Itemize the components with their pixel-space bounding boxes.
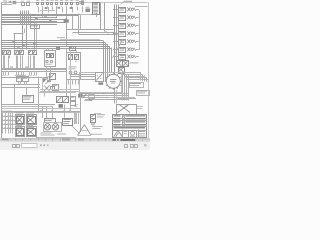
switch tick — [106, 76, 107, 79]
module U1 pin text — [93, 2, 98, 5]
ladder relay R2 box — [119, 16, 126, 21]
ladder rail 2 — [116, 5, 118, 61]
breaker L2 — [23, 77, 29, 82]
bus2 wire — [2, 40, 104, 42]
wire corner x80 — [80, 14, 82, 29]
ladder diagonal wire — [113, 39, 124, 58]
harness junction dots — [103, 93, 104, 94]
misc text — [94, 112, 101, 115]
ladder diag — [134, 48, 136, 51]
wires above inset — [108, 97, 135, 99]
terminal stubs below — [3, 71, 5, 75]
ladder stub left — [114, 33, 119, 35]
ladder contact X — [127, 7, 130, 11]
bus extra drops right pair — [34, 21, 36, 50]
ladder contact circle — [131, 48, 133, 50]
fuse box C2 — [63, 97, 69, 103]
wires below M1 — [46, 66, 48, 77]
ladder contact X — [127, 47, 130, 51]
dark component — [59, 104, 63, 108]
gauge label box — [45, 119, 56, 123]
switch contact box — [96, 73, 104, 82]
solenoid A4 — [27, 127, 37, 137]
fuse F5 — [55, 0, 58, 2]
connector labels x79 — [79, 0, 84, 3]
bus long drops — [22, 11, 24, 50]
page input box — [22, 144, 38, 148]
regulator box — [53, 85, 59, 91]
switch tick — [108, 74, 111, 75]
solenoid A1 — [16, 112, 24, 115]
terminal grid horizontals — [2, 116, 20, 118]
ladder relay R4 box — [119, 32, 126, 37]
wire into L3 — [26, 87, 28, 95]
wire top row link — [40, 10, 55, 12]
relay pin wire — [30, 56, 32, 59]
bus2 label text — [57, 36, 65, 39]
ladder contact X — [127, 15, 130, 19]
ladder stub left — [114, 25, 119, 27]
ladder contact X — [127, 31, 130, 35]
relay pin wire — [9, 56, 11, 59]
ladder contact circle — [131, 8, 133, 10]
step wire — [14, 33, 24, 35]
vertical wire x79 — [80, 92, 82, 132]
relay box M2 — [67, 53, 81, 80]
bottom wire — [36, 137, 76, 139]
long wire y77 — [2, 77, 41, 79]
wire vertical x100 — [100, 3, 102, 30]
bus2 wire — [2, 44, 108, 46]
ladder bottom cluster box2 — [123, 61, 129, 67]
right icon 2 — [131, 145, 134, 148]
relay pin wire — [3, 56, 5, 59]
ladder stub right — [136, 33, 139, 35]
bus2 bend drop — [103, 41, 105, 80]
page border left — [1, 2, 3, 140]
title bar text — [114, 127, 146, 128]
bus dots — [40, 110, 41, 111]
small box mid cluster — [51, 87, 55, 90]
ladder rail 1 — [114, 5, 116, 75]
wire x72 down — [72, 15, 74, 29]
emblem box — [129, 131, 137, 138]
fuse F1 — [36, 0, 39, 2]
relay K2 top — [58, 7, 61, 9]
ladder relay R7 box — [119, 55, 126, 60]
harness horizontals below switch — [79, 93, 129, 95]
long vertical x37.5 — [38, 77, 40, 114]
M2 pin stubs top — [70, 50, 72, 52]
bus2 wire — [2, 48, 112, 50]
sensor S1 — [56, 47, 60, 50]
gauge enclosure — [44, 123, 62, 132]
wire fuse drop — [56, 7, 58, 17]
ladder relay R3 box — [119, 24, 126, 29]
M1 contacts — [47, 54, 50, 58]
ladder stub right — [136, 41, 139, 43]
relay pin wire — [8, 56, 10, 59]
fuse F7 — [65, 0, 68, 2]
fuse F9 — [76, 0, 79, 2]
page marks — [40, 144, 42, 146]
component M5 — [50, 74, 56, 80]
ladder contact X — [127, 55, 130, 59]
drops x64 x70 — [64, 105, 66, 118]
right icon 1 — [125, 145, 128, 148]
hatch right of starter — [74, 113, 76, 124]
ladder relay R1 box — [119, 8, 126, 13]
wire top-left header — [2, 4, 12, 6]
ladder contact X — [127, 39, 130, 43]
solenoid A2 — [26, 112, 34, 115]
zone dark tab2 — [78, 138, 84, 140]
zoom-in icon — [17, 145, 20, 148]
extra wires upper center — [42, 77, 44, 91]
small box right2 — [71, 102, 76, 106]
mountain logo — [114, 130, 118, 136]
bus2 wire — [2, 42, 106, 44]
bus drops within band — [20, 11, 22, 25]
stub wires to mid bus — [3, 58, 5, 68]
divider small — [122, 130, 124, 138]
right icon 3 — [135, 145, 138, 148]
wire fuse drop — [72, 7, 74, 13]
ladder rail 1 lower — [114, 89, 116, 104]
bus y108 long — [2, 108, 81, 110]
wire vertical x103 — [104, 3, 106, 32]
cluster label — [130, 62, 139, 65]
relay pair at x27.5 — [28, 47, 31, 50]
ladder stub left — [114, 17, 119, 19]
wire from P2 down — [66, 23, 68, 46]
label box LB2 — [137, 91, 150, 96]
switch terminal block dark — [98, 82, 103, 84]
ladder bottom cluster box1 — [117, 61, 123, 67]
fuse labels — [97, 113, 105, 116]
diagonal cable — [72, 126, 80, 134]
switch tick — [108, 87, 111, 88]
wire labels mid bus — [10, 66, 13, 69]
ladder diag — [134, 32, 136, 35]
fan-out wires right — [121, 72, 141, 74]
ladder stub right — [136, 9, 139, 11]
harness verticals right of switch — [122, 73, 124, 101]
bus2 bend drop — [111, 48, 113, 72]
wires below breakers — [18, 82, 20, 85]
ladder diag — [134, 40, 136, 43]
M2 lamps — [69, 71, 72, 74]
wires below M2 — [68, 80, 70, 85]
wire fuse drop — [62, 7, 64, 13]
page border right — [148, 2, 150, 140]
relay pin wire — [16, 56, 18, 59]
notes row lines — [113, 118, 147, 120]
bus2 bend drop — [105, 42, 107, 81]
battery text rows — [41, 132, 52, 135]
gauge motor G1 — [44, 124, 50, 130]
fuse stack box1 — [91, 115, 96, 119]
fuse box C1 — [57, 97, 63, 103]
relay pin wire — [33, 56, 35, 59]
rail junction dots — [105, 31, 106, 32]
terminal grid verticals — [2, 113, 4, 134]
solenoid A3 — [16, 127, 25, 137]
notes col dividers — [122, 115, 124, 127]
relay pair at x14.5 — [15, 47, 18, 50]
ladder diag — [134, 24, 136, 27]
connector block x85 dark — [86, 9, 91, 13]
ladder contact circle — [131, 24, 133, 26]
wire number labels bus2 — [12, 40, 15, 43]
relay K3 top — [70, 7, 73, 9]
M2 coils — [69, 55, 73, 60]
ladder stub left — [114, 49, 119, 51]
switch tick — [116, 74, 119, 75]
ladder relay R6 box — [119, 48, 126, 53]
relay pin wire — [20, 56, 22, 59]
bus2 bend drop — [107, 44, 109, 83]
vertical x14.5 — [14, 84, 16, 104]
relay pin wire — [34, 56, 36, 59]
bus y110-112 — [2, 111, 81, 113]
bus band 1 wires — [2, 14, 101, 16]
relay K5 — [70, 47, 76, 51]
bottom zone strip — [0, 138, 150, 141]
connector label box x30 — [31, 25, 40, 29]
breaker label — [16, 74, 26, 77]
wire fuse drop — [82, 7, 84, 13]
bus2 upper faint wire — [60, 39, 100, 41]
ladder stub left — [114, 56, 119, 58]
fuse stack box2 — [91, 119, 96, 123]
label cluster top-left — [3, 0, 7, 2]
ladder stub left — [114, 41, 119, 43]
page border top — [2, 2, 148, 4]
logo caption — [114, 129, 121, 132]
ladder stub right — [136, 56, 139, 58]
relay pin wire — [28, 56, 30, 59]
text marks — [75, 103, 78, 106]
mesh wires — [40, 89, 80, 91]
ladder diag — [134, 8, 136, 11]
wire number labels bus1 — [32, 14, 35, 17]
wire x78 down — [78, 14, 80, 35]
triangle inner — [81, 130, 88, 132]
bus2 wire — [2, 46, 110, 48]
mid bus wires — [2, 68, 67, 70]
relay pin wire — [4, 56, 6, 59]
wire fuse drop — [38, 7, 40, 13]
ladder stub left — [114, 9, 119, 11]
inset side text — [137, 105, 143, 108]
page bottom border — [2, 138, 148, 140]
wire top-right — [135, 6, 148, 8]
fuse F10 — [81, 0, 84, 2]
indicator lamp — [92, 123, 95, 126]
wires to ladder rails — [67, 29, 114, 31]
relay pin wire — [22, 56, 24, 59]
wire fuse drop — [42, 7, 44, 17]
fuse F8 — [70, 0, 73, 2]
alternator labels — [40, 76, 46, 79]
switch tick — [112, 73, 114, 75]
footer left text — [2, 139, 8, 141]
switch tick — [105, 80, 107, 82]
ladder relay R5 box — [119, 40, 126, 45]
bus y84 y87 — [2, 84, 41, 86]
ramp triangle — [78, 125, 85, 136]
small label box — [89, 95, 95, 99]
ladder diag — [134, 16, 136, 19]
right cells text — [139, 130, 146, 133]
ladder contact circle — [131, 40, 133, 42]
component T3b top — [27, 3, 30, 6]
wire below U1 — [96, 14, 98, 18]
label top-right with leader — [124, 0, 132, 3]
relay box L3 — [23, 96, 34, 103]
notes table frame — [113, 115, 147, 138]
terminal junction marks — [2, 115, 3, 116]
grid label — [3, 110, 12, 113]
junction dots — [20, 13, 21, 14]
wire to LB2 — [118, 98, 137, 100]
switch tick — [119, 76, 120, 79]
zoom-out icon — [13, 145, 16, 148]
switch tick — [119, 84, 120, 87]
solenoid diagonal marks — [43, 79, 47, 83]
right cells divider — [138, 130, 140, 146]
ladder diag — [134, 55, 136, 58]
ladder collector right — [139, 10, 141, 50]
rotary switch circle — [106, 74, 120, 88]
wire fuse drop — [66, 7, 68, 20]
top-left component marks — [10, 1, 12, 3]
ladder contact circle — [131, 55, 133, 57]
switch tick — [106, 84, 107, 87]
fuse F2 — [41, 0, 44, 2]
ladder stub right — [136, 17, 139, 19]
wire fuse drop — [77, 7, 79, 11]
wire fuse drop — [52, 7, 54, 11]
ladder contact circle — [131, 16, 133, 18]
diode X — [44, 86, 50, 92]
switch tick — [112, 88, 114, 90]
page background — [0, 0, 150, 150]
relay pair at x2.0 — [2, 47, 5, 50]
inset arrow — [120, 106, 126, 111]
frame inset box — [117, 105, 137, 115]
center drops — [42, 106, 44, 118]
starter box — [63, 119, 73, 126]
gauge motor G2 — [52, 124, 58, 130]
notes row text — [114, 115, 121, 116]
label box LB1 — [130, 83, 144, 88]
module U1 box — [93, 3, 100, 15]
ladder stub right — [136, 49, 139, 51]
relay K1 top — [45, 7, 48, 9]
ladder contact circle — [131, 32, 133, 34]
lever switch dark — [78, 94, 82, 98]
zone dark tab1 — [62, 138, 70, 141]
fuse F3 — [46, 0, 49, 2]
arrow label wire — [84, 100, 92, 102]
toolbar top edge — [0, 141, 150, 143]
solenoid row text — [16, 124, 23, 127]
connector P2 — [64, 19, 69, 22]
zone ticks — [8, 138, 10, 141]
switch text — [110, 78, 117, 81]
far right mark — [144, 144, 147, 147]
M1 pin stubs top — [46, 48, 48, 50]
control box M1 — [45, 51, 56, 67]
triangle labels — [93, 125, 103, 128]
component T3a top — [22, 3, 25, 6]
bus2 bend drop — [109, 46, 111, 72]
ladder rail 3 — [118, 5, 120, 61]
ladder contact X — [127, 23, 130, 27]
starter solenoid circles — [42, 78, 44, 80]
alternator parts — [42, 79, 45, 81]
ladder stub right — [136, 25, 139, 27]
small box right1 — [71, 97, 76, 101]
inset X diagonals — [117, 104, 129, 112]
long center verticals — [66, 48, 68, 97]
wire fuse drop — [48, 7, 50, 13]
switch tick — [116, 87, 119, 88]
switch tick — [120, 80, 122, 82]
bus y104 y106 — [2, 104, 56, 106]
fuse F6 — [60, 0, 63, 2]
breaker L1 — [17, 77, 22, 82]
viewer toolbar bg — [0, 141, 150, 150]
connector J1 — [13, 1, 17, 4]
relay pin wire — [17, 56, 19, 59]
switch enclosure — [80, 73, 122, 93]
ladder bottom cluster box3 — [119, 68, 125, 74]
wires into switch — [70, 74, 95, 76]
fuse F4 — [51, 0, 54, 2]
footer filename text — [113, 139, 117, 141]
